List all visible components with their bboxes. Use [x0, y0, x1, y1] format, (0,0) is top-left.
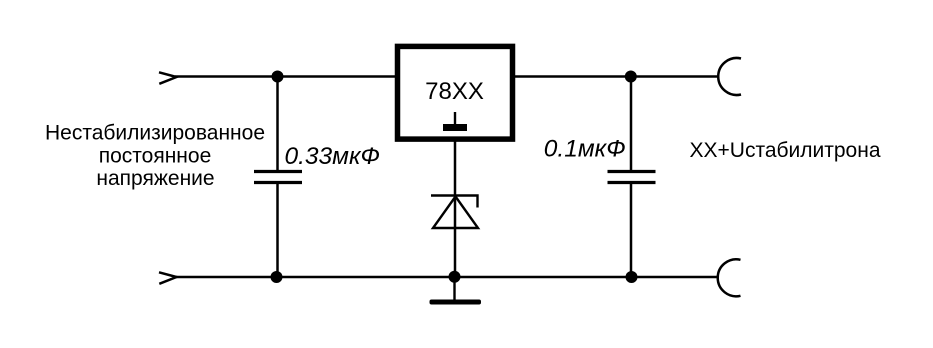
svg-text:78XX: 78XX	[425, 78, 484, 105]
svg-text:постоянное: постоянное	[99, 145, 212, 168]
svg-text:0.33мкФ: 0.33мкФ	[285, 143, 381, 170]
svg-text:XX+Uстабилитрона: XX+Uстабилитрона	[690, 139, 881, 162]
svg-text:напряжение: напряжение	[96, 167, 214, 190]
svg-text:0.1мкФ: 0.1мкФ	[544, 136, 626, 163]
svg-text:Нестабилизированное: Нестабилизированное	[45, 121, 265, 144]
